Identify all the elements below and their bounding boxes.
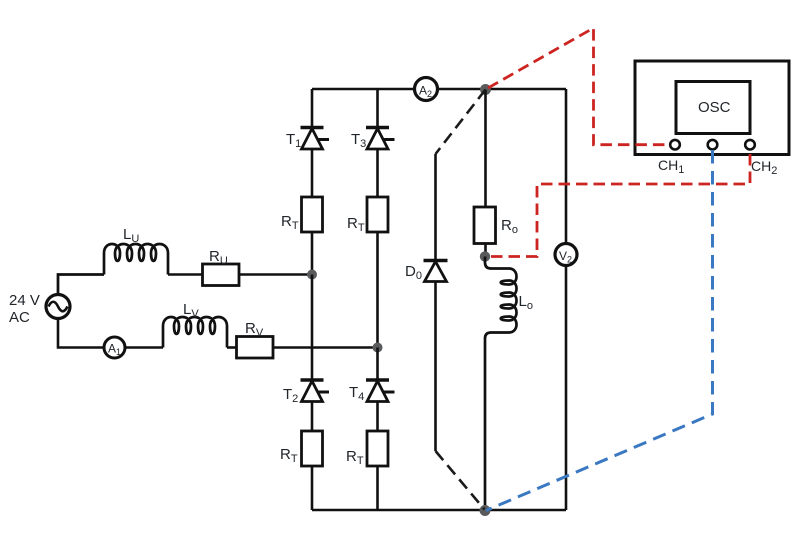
svg-text:OSC: OSC: [698, 99, 731, 116]
label T3: [351, 131, 366, 150]
label RU: [209, 248, 228, 267]
wire D0 cathode: [434, 282, 437, 452]
label CH1: [658, 157, 684, 176]
svg-text:AC: AC: [9, 309, 30, 326]
resistor RT (T1): [302, 197, 323, 232]
node V phase: [373, 343, 383, 353]
wire Ru to node: [239, 273, 312, 276]
bottom bus wire: [312, 509, 566, 512]
wire T3 to RT: [376, 149, 379, 197]
wire D0 anode: [434, 154, 437, 260]
thyristor T4: [366, 380, 395, 402]
resistor RU: [203, 264, 240, 286]
label OSC: [698, 99, 731, 116]
label Ro: [501, 217, 518, 236]
thyristor T2: [301, 380, 330, 402]
thyristor T1: [301, 128, 330, 150]
label T2: [283, 386, 298, 405]
node bottom (load return): [480, 505, 491, 516]
wire source bottom to A1: [58, 318, 104, 348]
wire T1 to RT: [311, 149, 314, 197]
label Lo: [519, 293, 533, 312]
wire RT to node (T3): [376, 232, 379, 348]
wire load branch top: [484, 90, 487, 208]
blue dashed probe lead middle jack to bottom node: [486, 150, 713, 511]
ammeter A2: [415, 78, 438, 101]
label RT (T3): [347, 215, 365, 234]
label RT (T1): [281, 213, 299, 232]
label T4: [349, 384, 364, 403]
oscilloscope OSC body: [635, 61, 789, 155]
wire A1 to Lv: [125, 346, 163, 349]
label RV: [245, 320, 264, 339]
top bus wire: [312, 88, 566, 91]
node Ro-Lo tap: [480, 251, 490, 261]
AC source 24V: [9, 292, 70, 326]
ammeter A1: [104, 337, 125, 358]
svg-text:24 V: 24 V: [9, 292, 40, 309]
wire RT to bottom bus (T4): [376, 466, 379, 510]
label CH2: [751, 158, 777, 177]
black dashed wire D0 to bottom node: [436, 451, 485, 510]
wire T3 branch top: [376, 89, 379, 127]
label LU: [123, 226, 139, 245]
wire T2 to RT: [311, 402, 314, 432]
wire Lv to Rv: [227, 346, 236, 349]
label D0: [405, 263, 422, 282]
thyristor T3: [366, 128, 395, 150]
label RT (T2): [280, 446, 298, 465]
inductor LU: [104, 244, 168, 275]
oscilloscope screen: [676, 82, 750, 134]
connector CH2 jack: [745, 140, 755, 150]
label LV: [183, 301, 199, 320]
voltmeter V2: [555, 244, 577, 266]
resistor RT (T4): [367, 431, 388, 466]
resistor RV: [237, 337, 274, 359]
diode D0: [424, 261, 448, 282]
inductor LV: [163, 317, 227, 348]
wire RT to node (T1): [311, 232, 314, 275]
label T1: [286, 131, 301, 150]
wire T1 branch top: [311, 89, 314, 127]
black dashed wire node to D0 top: [436, 90, 486, 155]
right column wire with V2: [565, 89, 568, 510]
node top (load tap): [480, 84, 491, 95]
inductor Lo: [485, 257, 517, 511]
wire source top to Lu: [58, 275, 104, 295]
resistor Ro: [474, 207, 496, 244]
wire RT to bottom bus (T2): [311, 466, 314, 510]
red dashed probe lead Ro-Lo node to CH2: [491, 151, 750, 257]
red dashed probe lead node to CH1: [488, 28, 669, 145]
label RT (T4): [346, 448, 364, 467]
wire Rv to node T4: [273, 346, 378, 349]
wire node to T4: [376, 348, 379, 380]
node U phase: [307, 270, 317, 280]
resistor RT (T2): [302, 431, 323, 466]
connector CH1 jack: [670, 140, 680, 150]
wire T4 to RT: [376, 402, 379, 432]
resistor RT (T3): [367, 197, 388, 232]
wire Ro to node: [484, 244, 487, 257]
connector middle jack: [708, 140, 718, 150]
wire node to T2: [311, 275, 314, 380]
wire Lu to Ru: [168, 273, 202, 276]
